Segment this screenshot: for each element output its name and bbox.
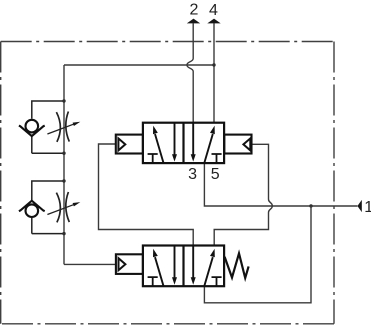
- valve V2 (lower 5/2 spring return valve) body: [143, 246, 224, 287]
- V1 left pilot: [116, 135, 143, 154]
- node: junction dot port4 line: [212, 63, 215, 66]
- valve V1 (upper 5/2 impulse valve) body: [143, 123, 224, 163]
- svg-text:1: 1: [364, 199, 371, 216]
- flow control FC2 (lower) branch loop: [32, 181, 64, 234]
- node: FC1 bottom junction: [62, 152, 65, 155]
- FC2 check valve seat: [19, 201, 45, 212]
- svg-text:2: 2: [189, 2, 198, 19]
- enclosure boundary top: [1, 41, 334, 43]
- V1 right box blocked port T: [212, 154, 222, 162]
- svg-text:5: 5: [211, 166, 220, 183]
- svg-text:3: 3: [188, 166, 197, 183]
- V2 right box down flow arrow: [191, 246, 196, 285]
- node: FC2 top junction: [62, 179, 65, 182]
- FC1 check valve ball: [26, 120, 39, 133]
- wire: left main vertical line: [63, 65, 65, 264]
- enclosure boundary bottom: [1, 323, 334, 325]
- V1 left box down flow arrow: [172, 123, 177, 162]
- enclosure boundary right: [333, 42, 335, 324]
- wire: horizontal from main line to port 4 line: [64, 64, 214, 66]
- V1 right pilot: [224, 135, 251, 154]
- V2 left box down flow arrow: [172, 246, 177, 285]
- node: junction dot supply line: [309, 204, 312, 207]
- connection triangle port 2: [187, 19, 200, 24]
- V2 right box blocked port T: [212, 277, 222, 285]
- wire: port 2 line with jump over crossing wire: [187, 23, 193, 122]
- FC1 check valve seat: [19, 126, 45, 137]
- V2 left box diagonal flow arrow: [153, 249, 163, 286]
- wire: port 4 line: [213, 23, 215, 122]
- wire: main line to lower pilot: [64, 263, 116, 265]
- FC1 throttle arcs: [56, 112, 69, 142]
- wire: upper valve right pilot line with jump over supply line: [214, 144, 272, 245]
- FC1 adjustment arrow: [47, 122, 80, 134]
- connection triangle port 4: [207, 19, 220, 24]
- wire: upper valve left pilot line: [99, 144, 194, 246]
- FC2 throttle arcs: [56, 192, 69, 222]
- V2 right box diagonal flow arrow: [204, 249, 214, 286]
- FC2 check valve ball: [26, 204, 39, 217]
- enclosure boundary left: [0, 42, 2, 324]
- wire: supply line 1: [204, 163, 357, 206]
- V1 right box diagonal flow arrow: [204, 126, 214, 163]
- V1 right box down flow arrow: [191, 123, 196, 162]
- svg-text:4: 4: [209, 2, 218, 19]
- wire: lower valve exhaust return to supply junction: [204, 206, 311, 303]
- node: FC2 bottom junction: [62, 232, 65, 235]
- supply arrow port 1: [357, 200, 361, 212]
- flow control FC1 (upper) branch loop: [32, 101, 64, 153]
- V2 left box blocked port T: [148, 277, 158, 285]
- V1 left box blocked port T: [148, 154, 158, 162]
- node: FC1 top junction: [62, 99, 65, 102]
- FC2 adjustment arrow: [47, 202, 80, 214]
- V2 return spring: [225, 253, 249, 278]
- V2 left pilot: [116, 254, 143, 274]
- V1 left box diagonal flow arrow: [153, 126, 163, 163]
